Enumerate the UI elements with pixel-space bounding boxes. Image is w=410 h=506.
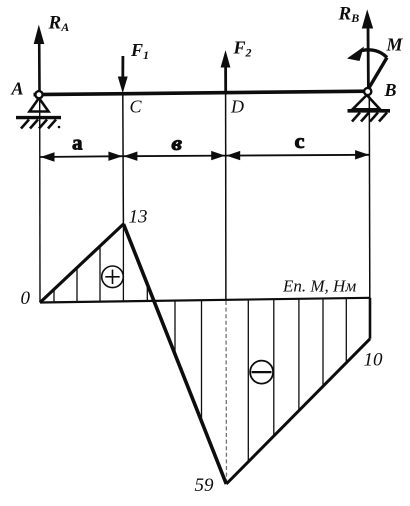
svg-text:13: 13 bbox=[129, 207, 148, 228]
plus sign circle bbox=[102, 266, 124, 288]
support B ground bbox=[348, 111, 391, 122]
svg-text:Еп. М, Нм: Еп. М, Нм bbox=[282, 277, 356, 296]
extension line B bbox=[368, 96, 371, 299]
reaction arrow RA bbox=[34, 25, 45, 92]
support A pin bbox=[30, 91, 49, 111]
support A ground bbox=[16, 118, 61, 129]
diagram right edge at B bbox=[369, 298, 372, 339]
svg-text:59: 59 bbox=[195, 475, 215, 496]
dot after ground A bbox=[58, 126, 61, 129]
reaction arrow RB bbox=[362, 9, 373, 90]
minus sign circle bbox=[250, 361, 273, 384]
hatching negative area bbox=[175, 298, 346, 461]
dimension line v with arrows bbox=[123, 151, 226, 161]
diagram baseline bbox=[40, 298, 370, 303]
support B pin bbox=[353, 88, 381, 109]
extension line D upper bbox=[225, 93, 227, 301]
svg-text:в: в bbox=[172, 133, 183, 155]
extension line D lower faint bbox=[225, 301, 228, 483]
force arrow F2 bbox=[221, 50, 231, 93]
extension line A bbox=[39, 97, 41, 303]
svg-text:10: 10 bbox=[364, 350, 384, 371]
dimension line c with arrows bbox=[226, 150, 370, 160]
diagram edge 13 to 59 bbox=[124, 224, 227, 484]
svg-text:0: 0 bbox=[21, 288, 31, 309]
svg-text:M: M bbox=[386, 35, 404, 55]
svg-text:c: c bbox=[295, 131, 305, 153]
svg-text:D: D bbox=[230, 97, 244, 117]
diagram edge 59 to 10 bbox=[226, 339, 370, 484]
beam AB bbox=[34, 91, 369, 94]
diagram edge 0 to 13 bbox=[40, 224, 124, 303]
svg-text:A: A bbox=[11, 79, 24, 99]
hatching positive area bbox=[54, 224, 147, 302]
moment arrow M bbox=[347, 47, 387, 92]
svg-text:a: a bbox=[72, 133, 83, 155]
dimension line a with arrows bbox=[40, 152, 123, 162]
extension line C bbox=[122, 95, 125, 224]
svg-text:B: B bbox=[384, 80, 397, 100]
force arrow F1 bbox=[118, 56, 128, 93]
svg-text:C: C bbox=[130, 97, 143, 117]
